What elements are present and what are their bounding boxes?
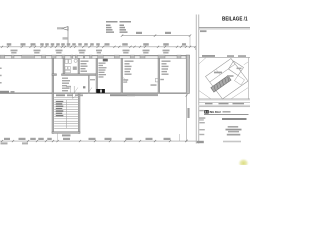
entrance black marker (96, 89, 105, 93)
site main building outline (206, 59, 249, 100)
sheet divider double line (196, 15, 199, 144)
room 30 label (103, 59, 108, 62)
corridor wall horizontal (52, 74, 97, 76)
gym bottom label (0, 91, 15, 93)
stair tower bottom wall (52, 132, 80, 134)
table left label top (199, 110, 204, 111)
site sketch bottom border (199, 99, 250, 100)
svg-text:BEILAGE /1: BEILAGE /1 (222, 17, 248, 23)
revision table top line (199, 101, 250, 103)
stair bottom label (62, 134, 71, 136)
stair door opening (73, 94, 79, 99)
wall piers (0, 55, 190, 58)
site boundary diagonals (199, 58, 249, 99)
small note under rule (200, 30, 207, 32)
bottom dimension line (0, 140, 196, 142)
centered row 2 (two lines) (226, 129, 242, 133)
revision table shaded row (199, 105, 250, 107)
wall middle room left (63, 58, 65, 74)
dim connector x179.5 (179, 134, 181, 141)
row label 1 (199, 122, 205, 123)
right vertical dimension line (186, 94, 190, 142)
site sketch captions (202, 55, 246, 57)
stair number column (56, 101, 64, 116)
wall room x96 (96, 58, 98, 93)
exterior wall bottom edge (0, 57, 190, 59)
annotation text block B (120, 21, 132, 33)
upper dimension line (right section) (121, 32, 191, 47)
stair landing line (54, 96, 78, 98)
mast/flag symbol (57, 27, 68, 47)
stair center line (66, 100, 68, 128)
stair treads (54, 100, 78, 129)
wall between classrooms (158, 58, 160, 93)
title underline double rule (199, 28, 250, 29)
yellow dot (238, 158, 249, 168)
bottom dim ticks (1, 140, 188, 142)
project address line (222, 118, 247, 120)
building bottom wall (0, 92, 190, 94)
row label 3 (199, 134, 204, 135)
window sill line (0, 56, 190, 58)
centered row 1 (228, 126, 239, 128)
level text below bottom wall (110, 94, 135, 96)
corridor text block (62, 78, 70, 92)
wc fixtures (65, 59, 77, 73)
gym/stair divider wall (52, 58, 54, 93)
right exterior wall (186, 55, 189, 93)
window annotation texts below dim line (11, 50, 170, 54)
bottom dim numbers below (1, 142, 29, 144)
project left small text (199, 117, 206, 120)
corridor door annotations (66, 86, 92, 93)
exterior wall top edge (0, 54, 190, 56)
site hatched new building (211, 76, 231, 92)
stair entry frame (71, 86, 75, 93)
left edge leader labels (0, 68, 2, 84)
wall room x121 (121, 58, 123, 93)
dim row below classroom1 (127, 94, 158, 96)
centered row 3 (227, 134, 241, 136)
site secondary building (229, 61, 249, 85)
faint bottom row (223, 141, 241, 143)
revision table bottom line (199, 106, 250, 108)
site sketch top border (199, 56, 250, 58)
stair dim connector (57, 134, 59, 142)
top dimension numbers (7, 43, 186, 45)
revision table header texts (205, 103, 244, 104)
room text block x98 (99, 63, 107, 78)
BIG logo mark (204, 110, 208, 113)
small room wall x88 (88, 76, 89, 94)
stair top text row (56, 94, 83, 96)
wall middle room right (78, 58, 80, 74)
classroom2 label block (162, 61, 171, 75)
right top dim end tick (194, 47, 196, 50)
site text smudges (214, 68, 242, 77)
small room label x90 (90, 79, 95, 80)
stair tower right wall (78, 93, 80, 133)
svg-text:BIG BAU: BIG BAU (210, 110, 222, 114)
main top dimension line (0, 46, 196, 48)
row label 2 (199, 129, 205, 130)
logo underline (204, 114, 249, 116)
site slab inner line (210, 59, 236, 83)
door detail x122 (123, 77, 129, 83)
gez label (197, 141, 204, 143)
annotation text block A (106, 21, 118, 33)
stair tower left wall (52, 93, 54, 133)
bottom dim numbers above (4, 138, 171, 140)
site sketch right border (247, 57, 249, 99)
room label garderobe (81, 61, 89, 72)
classroom1 label block (125, 61, 134, 75)
top dimension ticks (1, 46, 197, 48)
door detail x158 (151, 79, 164, 86)
logo small text (223, 111, 231, 113)
